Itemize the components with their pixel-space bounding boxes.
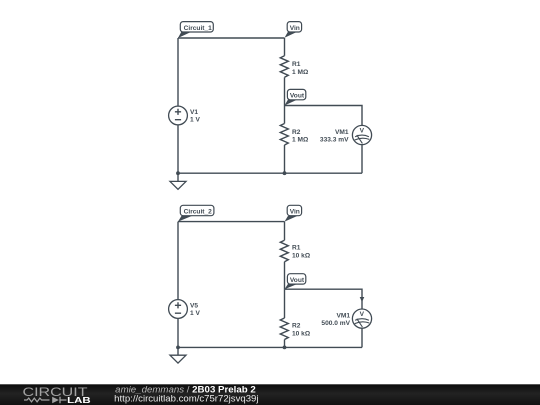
svg-text:Circuit_2: Circuit_2 [184, 209, 213, 216]
wire Vout to voltmeter (circuit 1) [285, 106, 363, 126]
node label Vin (circuit 2) [285, 205, 302, 221]
wire V5 bottom to ground rail (circuit 2) [177, 318, 179, 347]
node label Circuit_2 [178, 205, 214, 221]
svg-text:1 MΩ: 1 MΩ [292, 136, 309, 143]
svg-text:V1: V1 [190, 109, 198, 116]
resistor R1 (circuit 1) [280, 38, 309, 106]
wire top rail circuit 2 [178, 221, 285, 223]
junction dot R2 bottom (circuit 1) [283, 171, 287, 175]
svg-text:333.3 mV: 333.3 mV [320, 137, 349, 144]
svg-text:10 kΩ: 10 kΩ [292, 330, 311, 337]
svg-text:1 MΩ: 1 MΩ [292, 69, 309, 76]
resistor R2 (circuit 2) [280, 289, 311, 347]
footer bar [0, 384, 540, 405]
voltage source V5 [169, 300, 201, 319]
svg-text:500.0 mV: 500.0 mV [321, 320, 350, 327]
wire bottom rail circuit 2 [178, 346, 362, 348]
svg-text:V: V [360, 311, 365, 318]
wire V1 bottom to ground rail (circuit 1) [177, 125, 179, 173]
svg-text:Vout: Vout [290, 277, 305, 284]
svg-text:VM1: VM1 [336, 313, 350, 320]
wire top rail circuit 1 [178, 37, 285, 39]
svg-text:Vin: Vin [290, 209, 300, 216]
svg-text:1 V: 1 V [190, 117, 200, 124]
voltage source V1 [169, 106, 201, 125]
wire voltmeter to bottom rail (circuit 2) [361, 328, 363, 347]
junction dot V5/ground (circuit 2) [176, 346, 180, 350]
resistor R1 (circuit 2) [280, 222, 311, 290]
svg-text:Vin: Vin [290, 25, 300, 32]
node label Vout (circuit 1) [285, 89, 306, 105]
svg-text:Circuit_1: Circuit_1 [184, 25, 213, 32]
svg-text:http://circuitlab.com/c75r72js: http://circuitlab.com/c75r72jsvq39j [114, 394, 258, 404]
svg-text:1 V: 1 V [190, 310, 200, 317]
wire voltmeter to bottom rail (circuit 1) [361, 145, 363, 174]
node label Vout (circuit 2) [285, 274, 306, 290]
svg-text:R1: R1 [292, 61, 301, 68]
junction dot R2 bottom (circuit 2) [283, 346, 287, 350]
svg-text:R2: R2 [292, 129, 301, 136]
svg-text:Vout: Vout [290, 93, 305, 100]
wire bottom rail circuit 1 [178, 172, 362, 174]
svg-text:V: V [360, 128, 365, 135]
voltmeter VM1 (circuit 1) [320, 125, 372, 144]
voltmeter VM1 (circuit 2) [321, 309, 371, 328]
resistor R2 (circuit 1) [280, 106, 309, 174]
svg-text:V5: V5 [190, 303, 198, 310]
svg-text:VM1: VM1 [335, 129, 349, 136]
probe arrow on voltmeter wire (circuit 2) [360, 297, 365, 302]
wire Vout to voltmeter (circuit 2) [285, 289, 363, 309]
ground (circuit 1) [170, 173, 186, 189]
node label Circuit_1 [178, 22, 213, 38]
svg-text:R1: R1 [292, 245, 301, 252]
svg-text:LAB: LAB [67, 396, 91, 405]
junction dot V1/ground (circuit 1) [176, 171, 180, 175]
node label Vin (circuit 1) [285, 22, 302, 38]
svg-text:R2: R2 [292, 323, 301, 330]
wire left branch circuit 1 (top rail to V1) [177, 38, 179, 106]
svg-text:10 kΩ: 10 kΩ [292, 253, 311, 260]
ground (circuit 2) [170, 347, 186, 363]
CircuitLab logo resistor-diode glyph [24, 397, 67, 403]
wire left branch circuit 2 (top rail to V5) [177, 222, 179, 300]
